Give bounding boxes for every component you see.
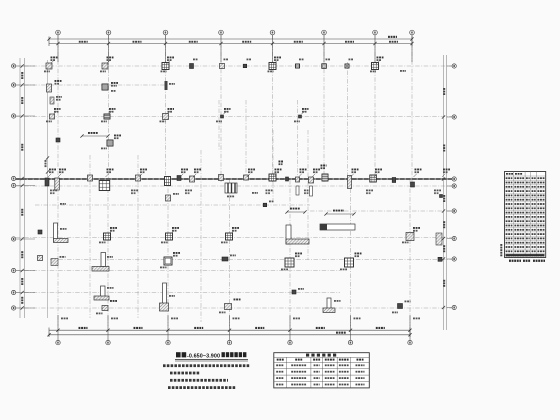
column mid-band x412.5 [411, 182, 415, 187]
axis bubble right F stub [447, 238, 453, 240]
column leader [442, 174, 445, 177]
column label [140, 169, 147, 171]
grid line horizontal y186 [16, 185, 452, 187]
title underline 1 [175, 358, 248, 360]
bracket x329 y307 [323, 298, 335, 313]
right table cell [514, 177, 524, 179]
axis bubble right B [452, 115, 456, 119]
dim text bottom segment [79, 327, 88, 329]
dim text top overall 24800 [388, 36, 397, 38]
beam strip mid band [16, 178, 452, 180]
grid line horizontal y259.3 [50, 258, 452, 260]
axis-7 stem [374, 35, 376, 62]
right table cell [532, 242, 536, 244]
column leader [414, 174, 417, 177]
tick right dim [442, 177, 445, 180]
axis bubble right F [452, 236, 456, 240]
tick top overall right [410, 37, 413, 40]
column GZ row-1 x222 [220, 64, 225, 69]
stray label [252, 192, 258, 194]
tick [80, 134, 83, 137]
column mid-band x287 [286, 177, 289, 181]
right table cell [506, 220, 513, 222]
right table cell [526, 212, 530, 214]
column sublabel [355, 255, 360, 257]
right table cell [506, 195, 513, 197]
right table cell [537, 212, 544, 214]
tick bottom x58 [56, 329, 59, 332]
column label [274, 57, 281, 59]
axis foot label [293, 318, 300, 320]
axis foot label [61, 318, 68, 320]
column mid-band x373 [370, 175, 377, 182]
tall label cluster B2 [321, 167, 326, 169]
tick top x165.5 [164, 42, 167, 45]
column bottom label [402, 242, 409, 244]
axis bubble left E [12, 183, 16, 187]
right table caption [523, 260, 530, 262]
axis bubble right C [452, 177, 456, 181]
right table cell [526, 220, 530, 222]
top dim end left [48, 37, 50, 47]
right table cell [537, 207, 544, 209]
dim text left vertical [21, 297, 23, 304]
tall label cluster A2 [279, 163, 283, 165]
bottom dim end right [409, 328, 411, 338]
right table cell [514, 242, 524, 244]
axis-b7 extension to bubble [409, 315, 411, 340]
column bottom label [185, 190, 192, 192]
column label [114, 135, 121, 137]
right table cell [506, 255, 513, 257]
grid line horizontal y116.5 [16, 116, 452, 118]
grid line secondary vertical [347, 62, 349, 182]
tick left wall dim [46, 156, 49, 159]
axis bubble right G [452, 257, 456, 261]
grid line secondary vertical [245, 100, 247, 182]
right table cell [537, 199, 544, 201]
axis bubble left F stub [16, 238, 35, 240]
column bottom label [392, 312, 398, 314]
right table cell [526, 203, 530, 205]
axis-4 stem [220, 35, 222, 62]
right table cell [537, 225, 544, 227]
column row-2 x49 [47, 84, 52, 92]
column sublabel2 [111, 90, 116, 92]
column leader [109, 231, 112, 234]
tick top x412 [410, 42, 413, 45]
column label [110, 300, 117, 302]
axis-b3 extension to bubble [167, 315, 169, 340]
column label [51, 57, 58, 59]
grid line secondary vertical [218, 100, 220, 150]
axis bubble right B stub [447, 116, 453, 118]
bottom dim end left [48, 328, 50, 338]
axis bubble right E [452, 209, 456, 213]
column bottom label [101, 121, 107, 123]
dim text left vertical [21, 72, 23, 79]
column bottom label [101, 148, 107, 150]
axis bubble bottom 7 [408, 340, 412, 344]
right table cell [526, 233, 530, 235]
grid line axis-b6 vertical [350, 180, 352, 326]
column bottom label2 [185, 192, 190, 194]
stub bar below band x311 [310, 186, 313, 196]
column label [299, 59, 304, 61]
beam bar x320-355 y227 [320, 224, 355, 230]
right table cell [526, 199, 530, 201]
column sublabel [443, 171, 448, 173]
column row-2 x105 [102, 84, 108, 90]
axis bubble right D stub [447, 185, 453, 187]
column bottom label [219, 312, 226, 314]
column mid-band x104.5 [99, 181, 110, 191]
bottom table cell [291, 371, 306, 373]
right table cell [532, 238, 536, 240]
grid line mid axis [16, 178, 452, 180]
column bottom label [266, 190, 273, 192]
column row-3 x222 [221, 115, 224, 118]
axis bubble left I [12, 306, 16, 310]
column label [181, 169, 188, 171]
dim text top segment [294, 41, 303, 43]
column mid-band x394 [392, 178, 396, 183]
column GZ row-1 x324 [322, 64, 327, 69]
bracket label [107, 256, 113, 258]
axis bubble left D stub [16, 178, 35, 180]
column sublabel [173, 255, 178, 257]
column mid-band x192 [190, 176, 195, 182]
axis bubble right E stub [447, 210, 453, 212]
bottom overall dim line [49, 334, 410, 336]
right table cell [532, 246, 536, 248]
drawing title tail [222, 352, 247, 357]
tick left dim [21, 306, 24, 309]
right table cell [514, 186, 524, 188]
column sublabel [313, 171, 318, 173]
column mid-band x349.5 [348, 176, 352, 189]
dim text top segment [133, 41, 142, 43]
right table cell [537, 220, 544, 222]
axis-b1 extension to bubble [57, 315, 59, 340]
column sublabel [114, 137, 119, 139]
bracket x100 y292 [94, 286, 109, 300]
dim text left vertical [21, 251, 23, 258]
stray label right [400, 70, 406, 72]
axis bubble top 1 [56, 30, 61, 35]
column mid-band x325 [322, 174, 328, 181]
column GZ row-1 x191.5 [190, 64, 194, 69]
grid line secondary vertical [307, 130, 309, 260]
bottom table header [339, 359, 349, 361]
column leader [180, 174, 183, 177]
L bracket x55 y233 [54, 223, 69, 243]
right table cell [514, 195, 524, 197]
dim text left vertical [21, 209, 23, 216]
axis bubble top 4 [219, 30, 224, 35]
column sublabel [415, 171, 420, 173]
column leader [171, 231, 174, 234]
column label [355, 253, 362, 255]
column bottom label [160, 121, 166, 123]
tick bottom x108 [106, 329, 109, 332]
column label [110, 227, 117, 229]
tall label cluster A [279, 161, 284, 163]
bottom table cell [325, 371, 335, 373]
column bottom label [161, 242, 168, 244]
column mid-band x246 [244, 175, 249, 180]
column leader [58, 174, 61, 177]
right table cell [537, 203, 544, 205]
tick right dim [442, 257, 445, 260]
column bottom label [44, 71, 50, 73]
tick top overall left [47, 37, 50, 40]
bottom table cell [314, 371, 320, 373]
column label [173, 252, 180, 254]
grid line axis-b4 vertical [229, 180, 231, 326]
axis bubble left H [12, 290, 16, 294]
dim text top segment [389, 41, 398, 43]
column sublabel [352, 171, 357, 173]
column leader [274, 174, 277, 177]
right table header [506, 173, 513, 175]
column sublabel [110, 230, 115, 232]
bottom table cell [276, 377, 283, 379]
right table cell [526, 216, 530, 218]
right table cell [514, 216, 524, 218]
axis bubble right A [452, 64, 456, 68]
right table cell [537, 238, 544, 240]
column bottom label [434, 190, 441, 192]
right table cell [506, 225, 513, 227]
grid line horizontal y211 [310, 210, 452, 212]
column mid-band x441 [440, 195, 443, 198]
bottom table cell [291, 384, 306, 386]
column sublabel [167, 59, 172, 61]
grid line secondary vertical [200, 150, 202, 322]
column x168 y198 [166, 195, 171, 201]
bottom table cell [314, 384, 320, 386]
right table cell [532, 220, 536, 222]
column sublabel [194, 171, 199, 173]
column sublabel [181, 171, 186, 173]
right table caption [533, 260, 545, 262]
bottom schedule table [274, 353, 370, 388]
column row-6 x107 [104, 233, 111, 240]
right table cell [526, 246, 530, 248]
bottom table cell [325, 364, 335, 366]
axis foot label [413, 318, 420, 320]
right table cell [532, 203, 536, 205]
column sublabel [49, 171, 54, 173]
bracket label [334, 300, 341, 302]
column GZ row-1 x105 [102, 63, 108, 69]
right table cell [537, 186, 544, 188]
grid line axis-b3 vertical [167, 180, 169, 326]
column leader [312, 174, 315, 177]
column sublabel [275, 171, 280, 173]
column label [173, 193, 179, 195]
column sublabel [109, 111, 114, 113]
column label [269, 201, 274, 203]
column leader [48, 174, 51, 177]
left dim line outer [19, 58, 21, 318]
column row-3 x300 [299, 115, 302, 118]
tall label cluster B [321, 165, 327, 167]
column label [275, 169, 282, 171]
axis bubble right G stub [447, 258, 453, 260]
right table cell [532, 212, 536, 214]
L bracket x287 y234 [286, 225, 309, 244]
right table cell [506, 229, 513, 231]
axis foot label [111, 318, 118, 320]
tick top x108.5 [107, 42, 110, 45]
column row-8 x400 [398, 304, 403, 309]
column label [352, 169, 359, 171]
column row-7 x289 [285, 258, 294, 267]
bottom table header [277, 359, 284, 361]
right table cell [532, 186, 536, 188]
column GZ row-1 x165.5 [162, 63, 169, 70]
axis bubble top 8 [410, 30, 415, 35]
tick [285, 210, 288, 213]
column sublabel [168, 111, 173, 113]
column bottom label [294, 121, 300, 123]
column label [224, 59, 229, 61]
column bottom label [131, 190, 138, 192]
column leader [106, 174, 109, 177]
right table cell [526, 186, 530, 188]
column leader [299, 174, 302, 177]
column label [111, 82, 118, 84]
tick left dim [21, 291, 24, 294]
bracket x52 y100 [50, 97, 54, 104]
column label [232, 227, 239, 229]
column label [230, 255, 236, 257]
axis-6 stem [323, 35, 325, 62]
tick bottom overall left [47, 333, 50, 336]
right table cell [506, 238, 513, 240]
column GZ row-1 x245 [243, 64, 247, 68]
note line 3 [170, 379, 228, 382]
column sublabel [172, 230, 177, 232]
column label [326, 59, 331, 61]
column label [193, 59, 198, 61]
tick left dim [21, 237, 24, 240]
column mid-band x272.5 [269, 174, 276, 181]
column label [298, 288, 304, 290]
right table cell [532, 177, 536, 179]
right table cell [532, 195, 536, 197]
column sublabel [232, 230, 237, 232]
column label [169, 83, 175, 85]
column sublabel [300, 171, 305, 173]
column row-6 x410 [406, 233, 414, 241]
right table cell [506, 212, 513, 214]
grid line secondary vertical [297, 100, 299, 182]
dim text top segment [242, 41, 251, 43]
column row-7 x168 [164, 257, 172, 265]
axis bubble bottom 1 [56, 340, 60, 344]
right table cell [532, 207, 536, 209]
top segment dim line [49, 43, 412, 45]
column leader [167, 111, 170, 114]
column label [107, 169, 114, 171]
axis bubble right A stub [447, 65, 453, 67]
axis bubble left H stub [16, 292, 35, 294]
dim text right vertical [443, 245, 445, 252]
grid line axis-b5 vertical [289, 180, 291, 326]
column bottom label2 [131, 192, 136, 194]
right table cell [514, 199, 524, 201]
dim text bottom segment [376, 327, 385, 329]
tick bottom x229.5 [228, 329, 231, 332]
right table cell [537, 216, 544, 218]
column mid-band x179 [177, 176, 181, 181]
dim text left vertical [21, 144, 23, 151]
right schedule table [505, 172, 546, 258]
right table cell [532, 225, 536, 227]
column leader [193, 174, 196, 177]
grid line secondary vertical [137, 155, 139, 318]
column x294 y292 [292, 290, 296, 294]
tick left dim [21, 177, 24, 180]
column label [109, 108, 116, 110]
ladder block x231 y188 [225, 183, 237, 193]
column x40 y232 [38, 230, 42, 234]
axis bubble left B stub [16, 84, 35, 86]
bottom table cell [339, 377, 349, 379]
tick left dim [21, 64, 24, 67]
column leader [377, 60, 381, 63]
column bottom label [96, 313, 103, 315]
bottom table cell [339, 371, 349, 373]
column row-3 x165.5 [163, 114, 169, 120]
right table cell [514, 220, 524, 222]
right table cell [514, 233, 524, 235]
column row-7 x349 [345, 258, 354, 267]
right table caption [509, 260, 521, 262]
column row-3 x107 [104, 114, 110, 119]
T bracket x100 y262 [92, 253, 109, 272]
column leader [107, 60, 111, 63]
grid line axis-4 vertical [220, 35, 222, 182]
bracket label [56, 96, 62, 98]
column sublabel [248, 171, 253, 173]
grid line horizontal y308 [16, 307, 452, 309]
column row-6 x229 [226, 233, 233, 240]
column sublabel [413, 230, 418, 232]
right table cell [506, 186, 513, 188]
dim text right vertical [443, 195, 445, 202]
column sublabel [295, 255, 300, 257]
column label [59, 169, 66, 171]
bottom table header [295, 359, 302, 361]
dim text bottom overall [336, 332, 346, 334]
axis bubble right C stub [447, 178, 453, 180]
right table cell [537, 242, 544, 244]
column bottom label2 [304, 192, 309, 194]
bottom table cell [356, 377, 365, 379]
tick left dim [21, 83, 24, 86]
tick right dim [442, 237, 445, 240]
right table side label [500, 244, 502, 256]
column bottom label [281, 269, 288, 271]
right table cell [532, 216, 536, 218]
column row-8 x105 [102, 306, 108, 311]
ladder dim label [227, 196, 234, 198]
axis-1 stem [57, 35, 59, 62]
